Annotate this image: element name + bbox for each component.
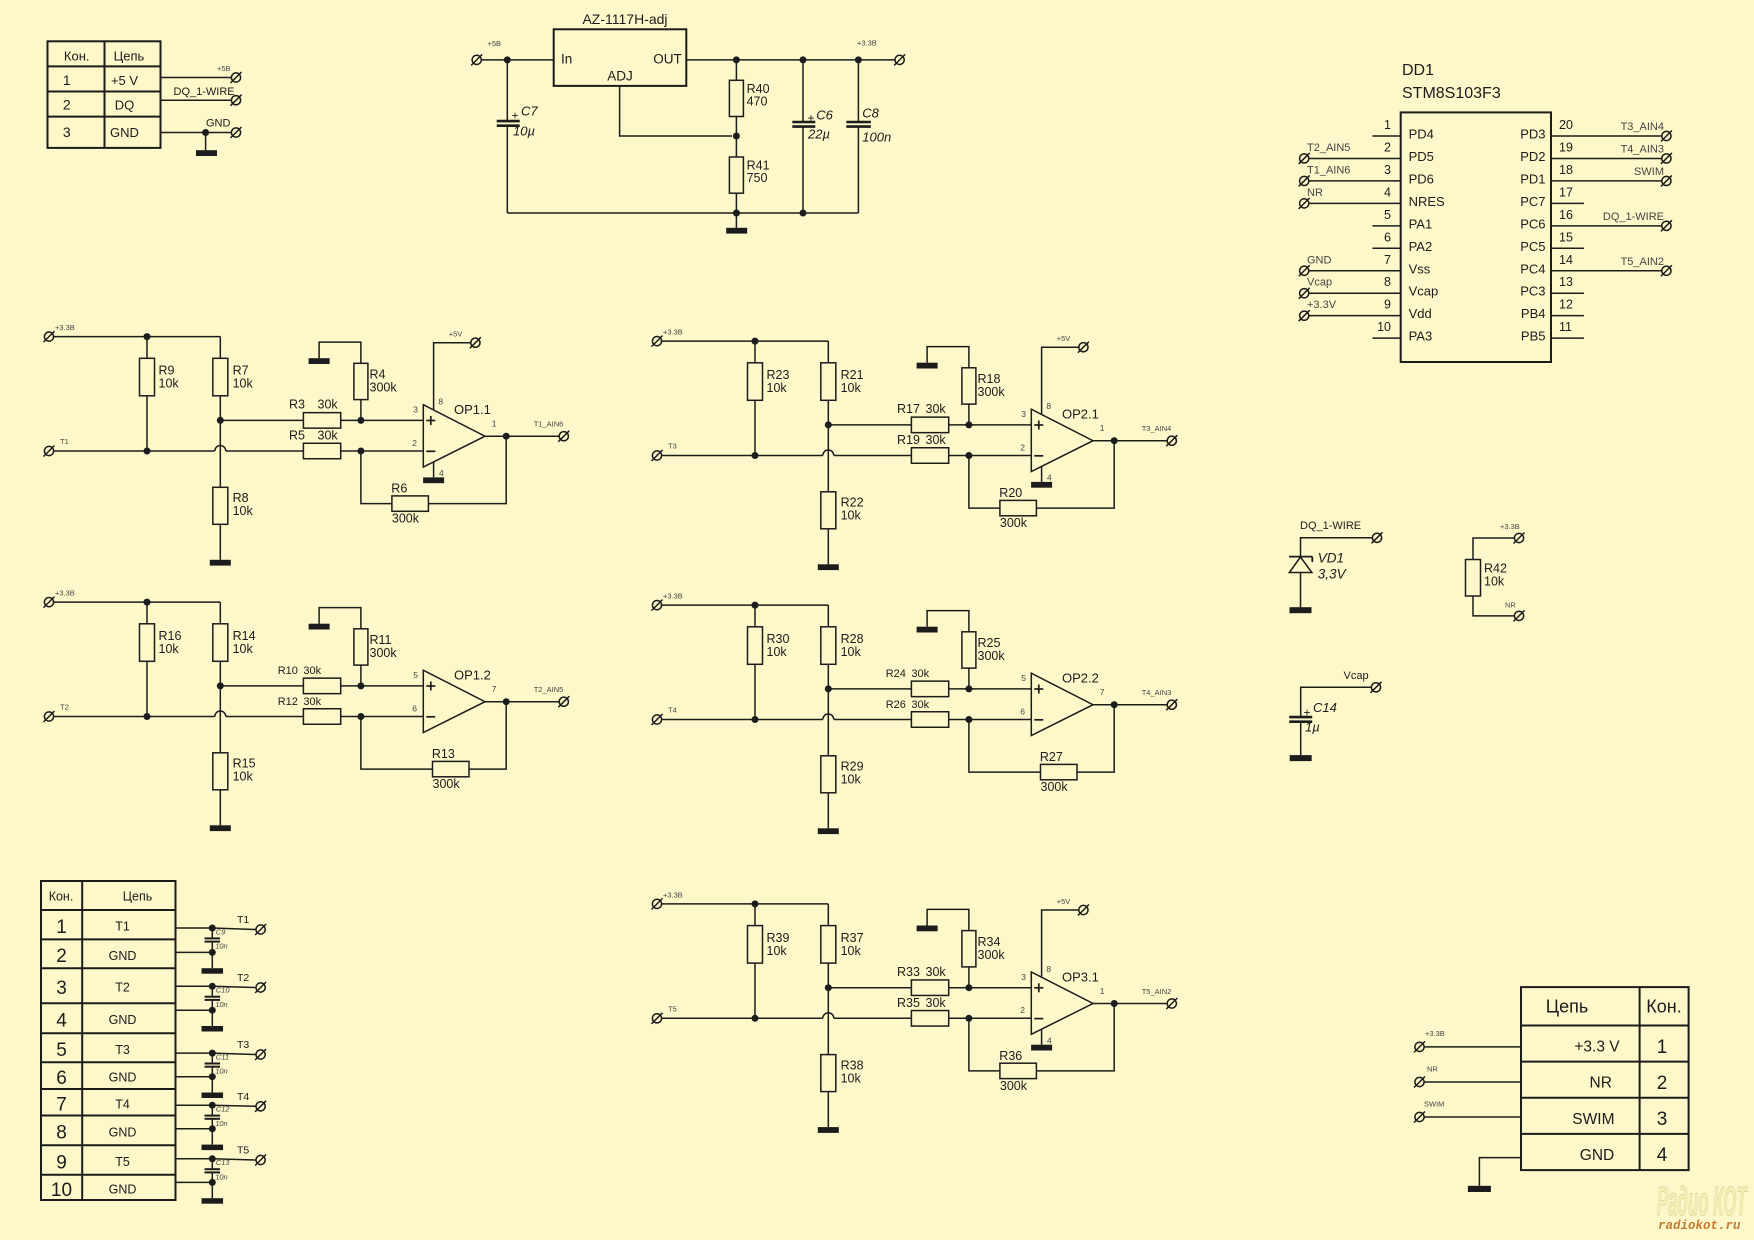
wire R12 to -input <box>341 716 424 718</box>
svg-text:10n: 10n <box>215 942 228 951</box>
junction gnd rail C6 <box>800 210 807 217</box>
svg-text:R37: R37 <box>841 931 864 945</box>
svg-text:10k: 10k <box>233 504 254 518</box>
junction R39 bottom <box>752 1015 759 1022</box>
svg-text:9: 9 <box>56 1152 67 1173</box>
DD1 pin 9 Vdd <box>1299 298 1432 322</box>
wire +5V supply OP3.1 <box>1042 910 1079 977</box>
svg-text:10k: 10k <box>841 773 862 787</box>
svg-text:2: 2 <box>412 438 417 448</box>
wire X2 GND row (T5) <box>176 1181 213 1183</box>
svg-text:In: In <box>561 52 572 67</box>
svg-text:10: 10 <box>51 1180 72 1201</box>
resistor R21 10k <box>821 341 864 425</box>
wire T4 row <box>661 714 911 719</box>
DD1 pin 11 PB5 <box>1521 320 1584 344</box>
ground R11 <box>309 624 330 630</box>
svg-text:+: + <box>1303 706 1310 720</box>
svg-text:8: 8 <box>438 397 443 407</box>
wire OUT to +3.3B terminal <box>686 59 895 61</box>
svg-text:+3.3B: +3.3B <box>663 328 683 337</box>
svg-text:2: 2 <box>1384 140 1391 154</box>
svg-text:T1_AIN6: T1_AIN6 <box>534 420 564 429</box>
svg-text:GND: GND <box>110 125 139 140</box>
svg-text:4: 4 <box>439 468 444 478</box>
svg-text:T1_AIN6: T1_AIN6 <box>1307 164 1350 176</box>
svg-text:+3.3B: +3.3B <box>1500 522 1520 531</box>
ground OP3.1 V- <box>1041 1030 1043 1045</box>
svg-text:R4: R4 <box>370 368 386 382</box>
junction R18 bottom <box>965 421 972 428</box>
junction C13 bottom <box>209 1179 216 1186</box>
junction R9 bottom <box>144 448 151 455</box>
terminal +3.3B <box>894 54 905 65</box>
connector table X3 (Tsep/Kon: +3.3 V, NR, SWIM, GND) <box>1521 987 1689 1170</box>
svg-text:T5_AIN2: T5_AIN2 <box>1621 256 1664 268</box>
ground T3 pair <box>211 1077 213 1093</box>
svg-text:+: + <box>807 111 814 125</box>
junction R14 bottom node <box>217 682 224 689</box>
wire +5V supply OP2.1 <box>1042 347 1079 414</box>
ground R29 <box>818 828 839 834</box>
svg-text:30k: 30k <box>318 398 339 412</box>
wire X2 GND row (T4) <box>176 1128 213 1130</box>
junction C8 top <box>855 56 862 63</box>
svg-text:T4_AIN3: T4_AIN3 <box>1142 688 1172 697</box>
svg-text:5: 5 <box>1384 208 1391 222</box>
svg-text:R23: R23 <box>767 368 790 382</box>
terminal T3_AIN4 <box>1166 435 1177 446</box>
wire T5 row <box>661 1013 911 1018</box>
svg-text:Vcap: Vcap <box>1307 277 1332 289</box>
svg-text:+3.3B: +3.3B <box>663 592 683 601</box>
svg-text:1: 1 <box>1100 423 1105 433</box>
svg-text:1: 1 <box>1100 986 1105 996</box>
resistor R8 10k <box>213 487 254 560</box>
terminal T2 input <box>44 711 55 722</box>
svg-text:+5V: +5V <box>1057 334 1071 343</box>
terminal Vcap <box>1371 682 1382 693</box>
op-amp OP3.1 <box>1031 969 1099 1034</box>
svg-text:10k: 10k <box>841 944 862 958</box>
wire R27 to output node <box>1077 705 1114 772</box>
wire +3.3B rail (OP2.1) <box>661 340 828 342</box>
svg-text:R17: R17 <box>897 402 920 416</box>
svg-text:Цепь: Цепь <box>114 48 145 63</box>
junction C6 top <box>800 56 807 63</box>
resistor R36 300k feedback <box>999 1049 1036 1093</box>
svg-text:R29: R29 <box>841 760 864 774</box>
resistor R22 10k <box>821 492 864 565</box>
DD1 pin 7 Vss <box>1299 253 1431 277</box>
svg-text:+3.3B: +3.3B <box>55 589 75 598</box>
op-amp OP1.2 <box>423 668 491 733</box>
svg-text:Цепь: Цепь <box>1546 997 1588 1017</box>
wire X2 GND row (T3) <box>176 1076 213 1078</box>
svg-text:PD3: PD3 <box>1520 127 1545 142</box>
svg-text:R30: R30 <box>767 632 790 646</box>
svg-text:6: 6 <box>1020 706 1025 716</box>
svg-text:OUT: OUT <box>653 52 682 67</box>
svg-text:5: 5 <box>1021 673 1026 683</box>
svg-text:R12: R12 <box>278 696 298 708</box>
svg-text:7: 7 <box>492 684 497 694</box>
svg-text:Кон.: Кон. <box>1646 997 1681 1017</box>
junction ADJ node <box>733 133 740 140</box>
resistor R28 10k <box>821 605 864 689</box>
svg-text:10n: 10n <box>215 1067 228 1076</box>
terminal T4 input <box>652 714 663 725</box>
wire OP3.1 output <box>1093 1003 1167 1005</box>
resistor R5 30k (to -in) <box>289 429 341 459</box>
svg-text:Радио КОТ: Радио КОТ <box>1657 1178 1748 1224</box>
svg-text:T5_AIN2: T5_AIN2 <box>1142 987 1172 996</box>
svg-text:10k: 10k <box>767 944 788 958</box>
DD1 pin 17 PC7 <box>1520 185 1584 209</box>
svg-text:1µ: 1µ <box>1305 720 1320 735</box>
wire node to R3 <box>220 419 303 421</box>
DD1 pin 14 PC4 <box>1520 253 1672 277</box>
svg-text:DD1: DD1 <box>1402 62 1434 79</box>
DD1 pin 4 NRES <box>1299 185 1445 209</box>
wire R19 to -input <box>949 455 1032 457</box>
svg-text:PD1: PD1 <box>1520 171 1545 186</box>
junction output <box>1111 701 1118 708</box>
terminal DQ_1-WIRE (zener) <box>1372 532 1383 543</box>
junction R11 bottom <box>357 682 364 689</box>
svg-text:C10: C10 <box>216 986 231 995</box>
DD1 pin 3 PD6 <box>1299 163 1434 187</box>
wire NR to X3 pin2 <box>1424 1081 1521 1083</box>
wire R6 to output node <box>428 436 506 503</box>
svg-text:GND: GND <box>1580 1147 1614 1164</box>
capacitor C10 10n <box>205 986 231 1011</box>
svg-text:GND: GND <box>109 1183 137 1197</box>
svg-text:10k: 10k <box>233 377 254 391</box>
svg-text:30k: 30k <box>303 665 321 677</box>
resistor R24 30k (to +in) <box>886 668 949 697</box>
svg-text:C7: C7 <box>521 104 538 119</box>
svg-text:14: 14 <box>1559 253 1573 267</box>
junction R21 bottom node <box>825 421 832 428</box>
DD1 pin 12 PB4 <box>1521 298 1584 322</box>
svg-text:C9: C9 <box>216 927 226 936</box>
terminal T4 <box>255 1101 266 1112</box>
wire X2 GND row (T2) <box>176 1009 213 1011</box>
svg-text:OP1.2: OP1.2 <box>454 668 491 683</box>
terminal NR <box>1514 610 1525 621</box>
svg-text:30k: 30k <box>926 433 947 447</box>
svg-text:10k: 10k <box>1484 575 1505 589</box>
junction R30 bottom <box>752 716 759 723</box>
terminal T2_AIN5 <box>558 696 569 707</box>
resistor R6 300k feedback <box>391 482 428 526</box>
DD1 pin 15 PC5 <box>1520 230 1584 254</box>
svg-text:10k: 10k <box>159 642 180 656</box>
wire X2 T5 row <box>176 1158 213 1160</box>
wire +3.3B rail (OP3.1) <box>661 903 828 905</box>
svg-text:10k: 10k <box>159 377 180 391</box>
DD1 pin 10 PA3 <box>1372 320 1432 344</box>
svg-text:2: 2 <box>63 96 71 112</box>
junction C11 bottom <box>209 1073 216 1080</box>
svg-text:PA1: PA1 <box>1409 216 1433 231</box>
connector table X2 (pins 1-10: T1..T5/GND) <box>41 881 176 1201</box>
svg-text:R24: R24 <box>886 668 906 680</box>
terminal T5 input <box>652 1013 663 1024</box>
svg-text:R15: R15 <box>233 757 256 771</box>
svg-text:1: 1 <box>1657 1037 1668 1058</box>
svg-text:4: 4 <box>56 1011 67 1032</box>
junction C10 top <box>209 983 216 990</box>
svg-text:+5V: +5V <box>449 330 463 339</box>
svg-text:Цепь: Цепь <box>123 890 152 904</box>
ground R15 <box>210 825 231 831</box>
svg-text:300k: 300k <box>978 649 1006 663</box>
svg-text:T3: T3 <box>237 1039 249 1051</box>
terminal T2 <box>255 982 266 993</box>
terminal DQ_1-WIRE <box>231 95 242 106</box>
capacitor C14 1u <box>1289 700 1337 735</box>
svg-text:OP2.1: OP2.1 <box>1062 407 1099 422</box>
svg-text:3: 3 <box>1021 409 1026 419</box>
svg-text:1: 1 <box>492 419 497 429</box>
svg-text:PA2: PA2 <box>1409 239 1433 254</box>
wire +5B to regulator In <box>481 59 554 61</box>
wire node down to R22 (crossover hop) <box>827 425 829 492</box>
svg-text:8: 8 <box>1046 401 1051 411</box>
svg-text:T2: T2 <box>237 972 249 984</box>
svg-text:PB4: PB4 <box>1521 306 1546 321</box>
svg-text:T5: T5 <box>115 1155 130 1169</box>
wire X2 T1 row <box>176 927 213 929</box>
op-amp OP2.2 <box>1031 671 1099 736</box>
DD1 pin 6 PA2 <box>1372 230 1432 254</box>
terminal T3 <box>255 1049 266 1060</box>
svg-text:470: 470 <box>747 95 768 109</box>
wire +3.3B rail (OP2.2) <box>661 604 828 606</box>
terminal +5B regulator input <box>471 54 482 65</box>
terminal +3.3B (OP2.1 divider) <box>652 336 663 347</box>
svg-text:Vcap: Vcap <box>1409 284 1439 299</box>
svg-text:PC7: PC7 <box>1520 194 1545 209</box>
resistor R11 300k (to gnd) <box>319 608 397 686</box>
svg-text:10k: 10k <box>233 770 254 784</box>
svg-text:+5B: +5B <box>217 64 231 73</box>
svg-text:T3_AIN4: T3_AIN4 <box>1621 121 1664 133</box>
svg-text:+3.3V: +3.3V <box>1307 299 1337 311</box>
wire T3 row <box>661 450 911 456</box>
DD1 pin 13 PC3 <box>1520 275 1584 299</box>
resistor R39 10k <box>748 904 790 1018</box>
DD1 pin 1 PD4 <box>1372 118 1433 142</box>
svg-text:1: 1 <box>56 917 67 938</box>
junction C9 bottom <box>209 949 216 956</box>
svg-text:300k: 300k <box>978 948 1006 962</box>
svg-text:10k: 10k <box>767 645 788 659</box>
wire node to R24 <box>828 688 911 690</box>
svg-text:R42: R42 <box>1484 562 1507 576</box>
wire +5V supply OP1.1 <box>434 343 471 410</box>
svg-text:4: 4 <box>1384 185 1391 199</box>
svg-text:PA3: PA3 <box>1409 329 1433 344</box>
junction feedback node <box>357 448 364 455</box>
resistor R13 300k feedback <box>432 747 469 791</box>
terminal T5_AIN2 <box>1166 998 1177 1009</box>
svg-text:10n: 10n <box>215 1000 228 1009</box>
junction feedback node <box>965 1015 972 1022</box>
terminal T1_AIN6 <box>558 431 569 442</box>
junction R30 top <box>752 602 759 609</box>
svg-text:GND: GND <box>206 118 231 130</box>
svg-text:T2: T2 <box>60 703 69 712</box>
svg-text:30k: 30k <box>303 696 321 708</box>
svg-text:C13: C13 <box>216 1158 231 1167</box>
ground R8 <box>210 560 231 566</box>
svg-text:22µ: 22µ <box>807 127 830 142</box>
svg-text:1: 1 <box>63 72 71 88</box>
svg-text:R21: R21 <box>841 368 864 382</box>
svg-text:4: 4 <box>1047 473 1052 483</box>
svg-text:R38: R38 <box>841 1058 864 1072</box>
svg-text:R20: R20 <box>999 486 1022 500</box>
ground T1 pair <box>211 952 213 968</box>
svg-text:AZ-1117H-adj: AZ-1117H-adj <box>582 11 667 27</box>
wire ADJ to R40/R41 node <box>620 86 732 136</box>
svg-text:9: 9 <box>1384 298 1391 312</box>
terminal T5 <box>255 1155 266 1166</box>
ground R38 <box>818 1127 839 1133</box>
junction R39 top <box>752 900 759 907</box>
svg-text:T4: T4 <box>115 1097 130 1111</box>
svg-text:10k: 10k <box>233 642 254 656</box>
resistor R25 300k (to gnd) <box>927 611 1005 689</box>
svg-text:GND: GND <box>109 1125 137 1139</box>
svg-text:T5: T5 <box>668 1004 677 1013</box>
wire node to R10 <box>220 685 303 687</box>
ground R34 <box>917 926 938 932</box>
svg-text:8: 8 <box>1384 275 1391 289</box>
DD1 pin 5 PA1 <box>1372 208 1432 232</box>
svg-text:2: 2 <box>1020 1005 1025 1015</box>
DD1 pin 2 PD5 <box>1299 140 1434 164</box>
svg-text:NR: NR <box>1307 187 1323 199</box>
svg-text:R9: R9 <box>159 364 175 378</box>
svg-text:R36: R36 <box>999 1049 1022 1063</box>
svg-text:3: 3 <box>1021 972 1026 982</box>
junction output <box>1111 437 1118 444</box>
ground R18 <box>917 363 938 369</box>
ground X1 <box>205 133 207 151</box>
svg-text:R11: R11 <box>370 633 392 647</box>
svg-text:GND: GND <box>109 949 137 963</box>
resistor R30 10k <box>748 605 790 719</box>
wire +3.3B to R42 <box>1473 538 1515 560</box>
ground T5 pair <box>211 1182 213 1198</box>
terminal T4_AIN3 <box>1166 699 1177 710</box>
svg-text:+: + <box>511 109 518 123</box>
svg-text:Кон.: Кон. <box>49 890 74 904</box>
junction R16 bottom <box>144 713 151 720</box>
svg-text:+3.3B: +3.3B <box>857 39 877 48</box>
svg-text:VD1: VD1 <box>1318 551 1344 566</box>
junction C7 top <box>504 56 511 63</box>
resistor R29 10k <box>821 756 864 829</box>
DD1 pin 19 PD2 <box>1520 140 1672 164</box>
DD1 pin 8 Vcap <box>1299 275 1439 299</box>
svg-text:PC4: PC4 <box>1520 261 1545 276</box>
ground R25 <box>917 627 938 633</box>
svg-text:PC5: PC5 <box>1520 239 1545 254</box>
wire regulator ground rail <box>507 212 858 214</box>
junction R23 bottom <box>752 452 759 459</box>
wire OP2.1 output <box>1093 440 1167 442</box>
svg-text:Vcap: Vcap <box>1344 670 1369 682</box>
wire node to R33 <box>828 987 911 989</box>
junction output <box>503 433 510 440</box>
svg-text:OP2.2: OP2.2 <box>1062 671 1099 686</box>
wire node to R17 <box>828 424 911 426</box>
wire node down to R38 (crossover hop) <box>827 988 829 1055</box>
terminal SWIM (X3) <box>1414 1112 1425 1123</box>
svg-text:3: 3 <box>1657 1109 1668 1130</box>
svg-text:3: 3 <box>63 124 71 140</box>
svg-text:10k: 10k <box>841 645 862 659</box>
svg-text:R28: R28 <box>841 632 864 646</box>
resistor R12 30k (to -in) <box>278 696 341 724</box>
svg-text:R14: R14 <box>233 629 256 643</box>
ground OP2.1 V- <box>1041 467 1043 482</box>
svg-text:6: 6 <box>412 703 417 713</box>
wire OP2.2 output <box>1093 704 1167 706</box>
svg-text:Vdd: Vdd <box>1409 306 1432 321</box>
junction R23 top <box>752 338 759 345</box>
resistor R14 10k <box>213 602 256 686</box>
svg-text:R6: R6 <box>391 482 407 496</box>
terminal NR (X3) <box>1414 1077 1425 1088</box>
svg-text:PB5: PB5 <box>1521 329 1546 344</box>
svg-text:3: 3 <box>56 978 67 999</box>
resistor R18 300k (to gnd) <box>927 347 1005 425</box>
svg-text:R22: R22 <box>841 496 864 510</box>
junction C10 bottom <box>209 1007 216 1014</box>
resistor R7 10k <box>213 337 254 421</box>
svg-text:PD6: PD6 <box>1409 171 1434 186</box>
svg-text:15: 15 <box>1559 230 1573 244</box>
svg-text:100n: 100n <box>862 130 891 145</box>
svg-text:2: 2 <box>1657 1073 1668 1094</box>
resistor R35 30k (to -in) <box>897 996 949 1026</box>
wire VD1 to ground <box>1300 573 1302 608</box>
capacitor C13 10n <box>205 1158 231 1182</box>
resistor R20 300k feedback <box>999 486 1036 530</box>
wire R10 to +input <box>341 685 424 687</box>
wire X3 GND to ground <box>1479 1158 1521 1186</box>
svg-text:GND: GND <box>109 1071 137 1085</box>
resistor R37 10k <box>821 904 864 988</box>
svg-text:10: 10 <box>1377 320 1391 334</box>
junction R37 bottom node <box>825 984 832 991</box>
capacitor C11 10n <box>205 1053 229 1077</box>
wire R42 to NR terminal <box>1473 596 1515 616</box>
wire node down to R15 (crossover hop) <box>219 686 221 753</box>
svg-text:18: 18 <box>1559 163 1573 177</box>
svg-text:Кон.: Кон. <box>64 48 90 63</box>
junction feedback node <box>965 716 972 723</box>
svg-text:30k: 30k <box>911 699 929 711</box>
svg-text:T3_AIN4: T3_AIN4 <box>1142 424 1172 433</box>
svg-text:PC3: PC3 <box>1520 284 1545 299</box>
